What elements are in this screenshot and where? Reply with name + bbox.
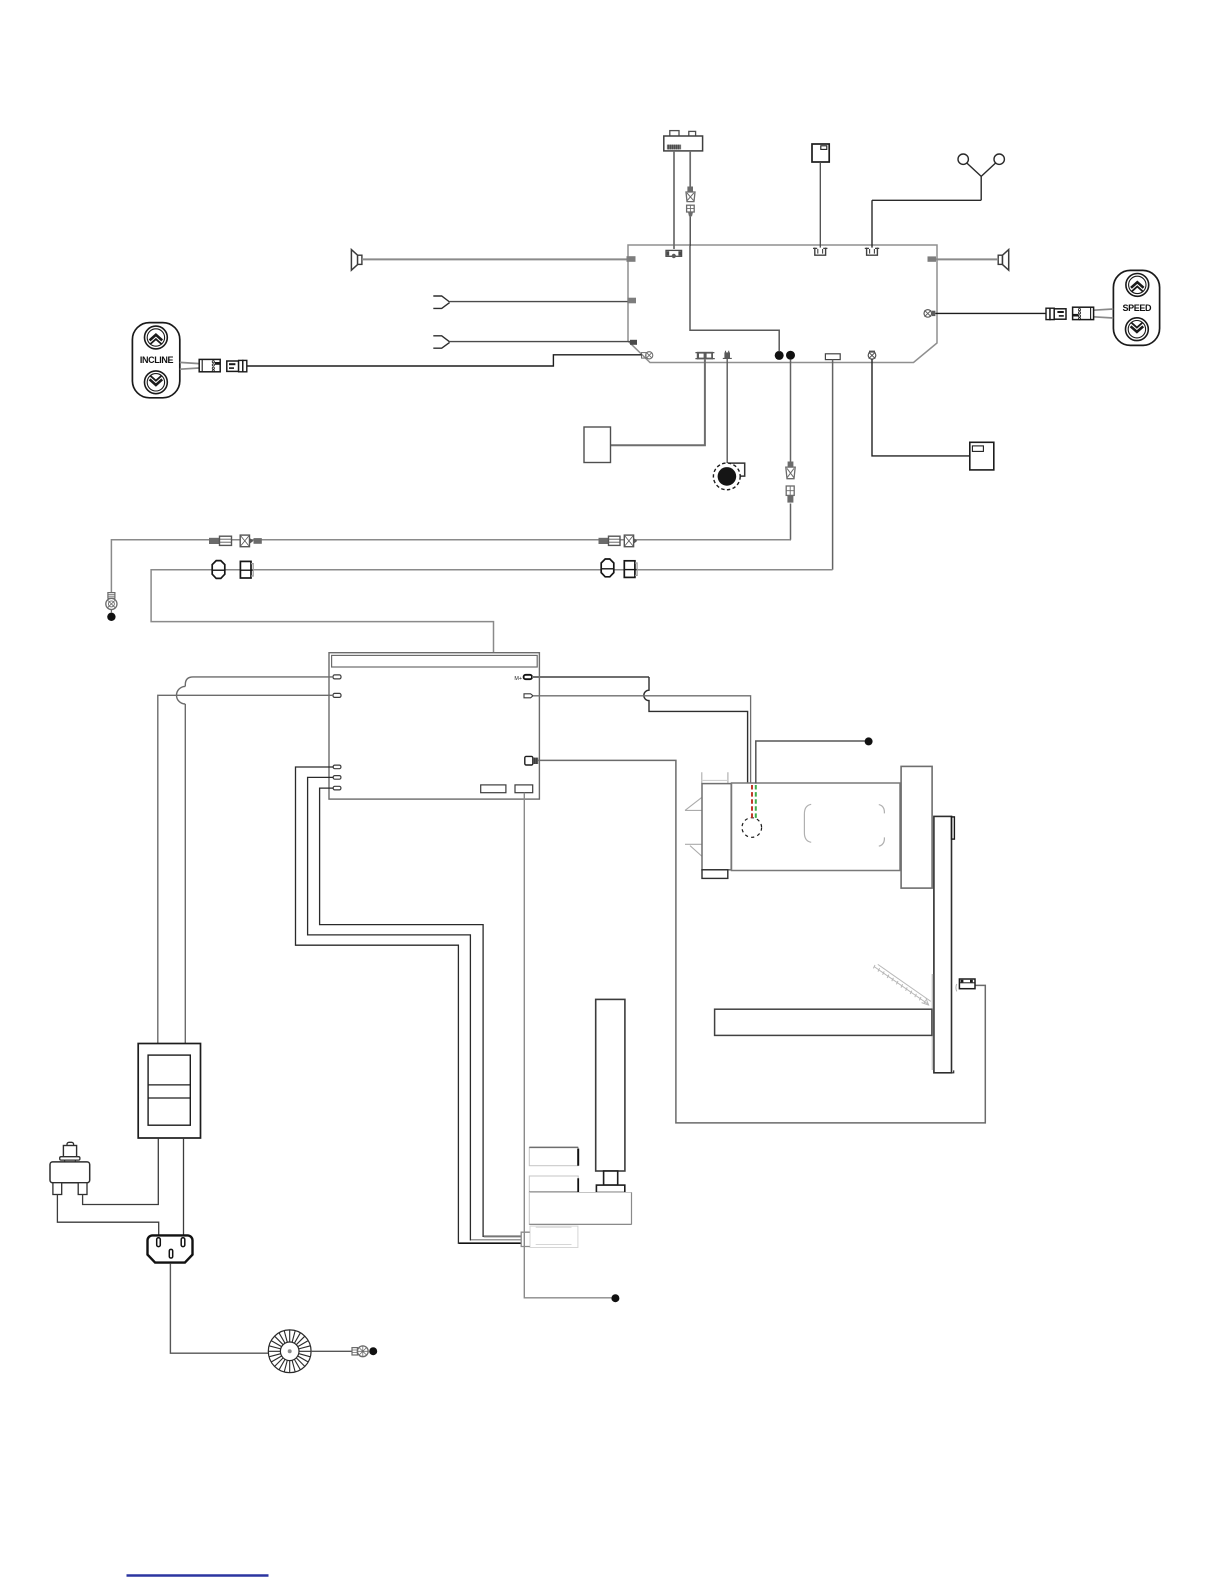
roller shaft diagonal xyxy=(873,964,930,1005)
line2 connector pair (right) xyxy=(601,559,637,577)
console right pin speaker R xyxy=(928,256,937,261)
lift base rect C xyxy=(529,1193,631,1225)
console incline connector on chamfer xyxy=(642,352,653,359)
wire socket ground to toroid xyxy=(170,1263,268,1353)
wire pin2 to switch xyxy=(158,695,333,1043)
speed control body xyxy=(1113,270,1159,345)
belt shade band xyxy=(931,974,933,1070)
speed connector piece 1 xyxy=(1046,308,1066,319)
wire fork2 to console xyxy=(450,341,630,343)
page footer blue line xyxy=(127,1574,269,1576)
wire connector B to buzzer xyxy=(726,359,728,463)
wire connector A to small box xyxy=(611,359,705,445)
wire switch right to socket xyxy=(183,1138,185,1235)
console top connector (safety key wire) xyxy=(813,248,827,256)
inline connector pair below dot2 xyxy=(786,462,795,503)
controller bottom rect 2 xyxy=(515,785,533,793)
svg-text:SPEED: SPEED xyxy=(1123,303,1152,313)
console outline xyxy=(628,245,937,363)
motor left cap xyxy=(702,784,731,870)
controller left pin 4 xyxy=(333,776,341,780)
bottom wire end dot xyxy=(611,1294,619,1302)
motor red lead xyxy=(751,785,753,818)
controller right sensor connector xyxy=(525,756,538,765)
lift wire end segment black xyxy=(459,1242,522,1244)
incline wire to console xyxy=(247,355,642,366)
speed sensor connector xyxy=(956,979,975,991)
pulse Y wire xyxy=(872,163,996,248)
speed down button xyxy=(1126,318,1149,341)
wire connector C to aux key box xyxy=(872,359,970,456)
wire pin5 staircase to lift motor xyxy=(320,788,522,1236)
console bottom connector A xyxy=(695,352,714,360)
controller left pin 2 xyxy=(333,693,341,697)
motor foot xyxy=(702,870,728,879)
belt inner line xyxy=(952,1070,954,1072)
motor mount bracket marks xyxy=(685,772,728,856)
lift bracket rect B xyxy=(529,1176,578,1193)
motor body seam left xyxy=(804,804,811,842)
incline up button xyxy=(145,326,168,349)
line1 connector pair (right) xyxy=(599,535,638,547)
console left pin 1 (speaker L) xyxy=(627,256,636,262)
inline connector pair on module wire xyxy=(686,187,695,217)
console bottom connector B (buzzer wire) xyxy=(723,351,732,359)
buzzer xyxy=(713,463,744,490)
controller left pin 5 xyxy=(333,786,341,790)
pulse grip circles xyxy=(958,154,1004,164)
belt top clamp xyxy=(952,817,955,839)
wire module pin1 down to console xyxy=(673,151,675,249)
motor body xyxy=(732,783,901,871)
speed connector piece 2 xyxy=(1073,307,1094,320)
motor wire entry dashed circle xyxy=(742,818,762,838)
console top connector (pulse wire) xyxy=(865,248,879,256)
small box left of buzzer xyxy=(584,427,611,463)
drive belt xyxy=(934,816,952,1072)
wire breaker right leg to switch xyxy=(83,1138,159,1204)
circuit breaker xyxy=(50,1142,90,1194)
lift tall column xyxy=(596,999,625,1171)
wire speaker L to console xyxy=(362,258,627,260)
lift wire end segment white xyxy=(471,1239,522,1241)
wire pin3 staircase to lift motor xyxy=(296,767,522,1243)
console bottom connector C (to aux box) xyxy=(868,351,876,360)
controller bottom rect 1 xyxy=(481,785,506,793)
motor green lead xyxy=(755,785,757,818)
wire toroid to ground lug xyxy=(311,1350,352,1352)
aux key box xyxy=(970,442,994,470)
speed wire to console xyxy=(936,312,1047,314)
wire safety key to console xyxy=(819,162,821,248)
controller left pin 1 xyxy=(333,675,341,679)
console left pin 3 (wire harness 2) xyxy=(630,340,637,345)
motor flywheel xyxy=(901,766,932,888)
console left pin 2 (wire harness 1) xyxy=(628,298,637,304)
ground lug end dot xyxy=(369,1347,377,1355)
controller header strip xyxy=(332,655,538,667)
speed leads xyxy=(1094,309,1114,318)
wire breaker left leg to socket xyxy=(57,1195,158,1236)
line1 left end screw connector xyxy=(106,593,117,610)
controller right pin 2 xyxy=(524,694,533,698)
wire right pin2 to motor xyxy=(533,696,751,784)
wire pin1 to switch (with rounded corner) xyxy=(185,677,333,1044)
controller right pin M+ xyxy=(524,675,532,679)
controller left pin 3 xyxy=(333,765,341,769)
fork lead 2 xyxy=(433,336,449,348)
line1 end dot xyxy=(107,613,115,621)
console internal wire to dot1 xyxy=(690,246,779,352)
speed up button xyxy=(1126,274,1149,297)
wire bottom rect2 down xyxy=(524,793,611,1298)
wire label rect down to gray line 2 xyxy=(832,360,834,570)
wire fork1 to console xyxy=(450,301,628,303)
motor body seam right xyxy=(879,805,885,847)
hop of pin1 wire over pin2 wire xyxy=(177,686,186,704)
toroid filter xyxy=(268,1330,311,1373)
incline connector piece 1 xyxy=(199,359,220,372)
wire module pin2 down xyxy=(689,151,691,187)
incline connector piece 2 xyxy=(227,360,247,371)
lift bracket rect A xyxy=(529,1147,578,1165)
lift wire end segment red xyxy=(484,1235,522,1237)
power inlet socket xyxy=(147,1235,192,1262)
lift column neck xyxy=(604,1171,618,1185)
wire console to speaker R xyxy=(936,258,998,260)
console right speed connector xyxy=(924,310,935,318)
wire sensor loop xyxy=(538,760,985,1123)
incline leads xyxy=(180,362,199,369)
console bottom label rect xyxy=(825,354,840,360)
wire connector to console interior xyxy=(689,216,691,246)
safety key box xyxy=(812,144,829,162)
incline down button xyxy=(145,371,168,394)
console bottom junction dot 1 xyxy=(775,351,784,360)
controller board xyxy=(329,653,539,799)
walking board xyxy=(715,1009,932,1035)
wire pin4 staircase to lift motor xyxy=(308,777,522,1240)
incline control body xyxy=(132,323,179,398)
wire M+ to motor xyxy=(532,676,649,678)
stub wire end dot xyxy=(865,737,873,745)
console top connector (USB module wire) xyxy=(666,250,682,258)
lift column foot xyxy=(596,1185,624,1192)
fork lead 1 xyxy=(433,296,449,308)
speaker L xyxy=(351,250,362,271)
wire dot2 down to gray line 1 xyxy=(790,360,793,540)
svg-text:INCLINE: INCLINE xyxy=(140,355,174,365)
console bottom junction dot 2 xyxy=(786,351,795,360)
USB/charger module xyxy=(664,131,703,151)
gray line 1 (y=540) xyxy=(111,540,790,593)
speaker R xyxy=(998,250,1009,271)
motor sensor stub wire with dot xyxy=(756,741,865,784)
line2 connector pair (left) xyxy=(212,561,253,579)
line1 connector pair (left) xyxy=(209,535,262,547)
lift motor connector bracket xyxy=(521,1232,530,1246)
svg-text:M+: M+ xyxy=(514,676,522,682)
ground lug connector xyxy=(352,1346,368,1357)
lift faint rect D xyxy=(530,1226,578,1247)
gray line 2 (y=570) xyxy=(151,570,833,785)
power switch xyxy=(138,1044,200,1139)
